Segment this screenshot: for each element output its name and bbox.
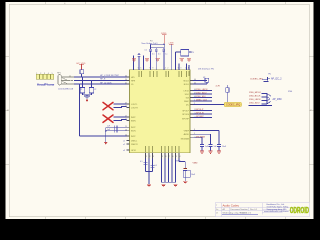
U1 left pin name texts (131, 77, 138, 152)
capacitor C6 (149, 49, 152, 69)
wire SPOLN (193, 113, 212, 115)
ground G4 (156, 59, 160, 61)
svg-text:C1: C1 (80, 89, 82, 91)
svg-text:6: 6 (173, 156, 174, 158)
svg-text:4: 4 (48, 73, 49, 75)
svg-text:VREF: VREF (184, 130, 190, 132)
capacitor C14 (151, 165, 155, 167)
svg-text:LRCK: LRCK (184, 90, 190, 92)
wire right pins (179, 64, 189, 70)
svg-text:0.1: 0.1 (152, 54, 155, 56)
svg-text:4.7K: 4.7K (216, 86, 221, 88)
svg-text:IN3P: IN3P (131, 117, 136, 119)
title link underline (222, 213, 258, 215)
svg-text:GPIO: GPIO (131, 150, 136, 152)
svg-text:Near Bridge (1uF): Near Bridge (1uF) (142, 43, 158, 45)
capacitor C7 (155, 48, 158, 70)
svg-text:x2: x2 (123, 144, 125, 146)
svg-text:4: 4 (165, 68, 166, 70)
capacitor C2 (89, 88, 93, 94)
svg-text:www.hardkernel.com Korea: www.hardkernel.com Korea (264, 211, 289, 213)
no-connect X SPK (103, 115, 113, 122)
ferrite bead FB2 (181, 50, 189, 57)
svg-text:MCLK: MCLK (183, 80, 189, 82)
U1 top pins (134, 66, 190, 70)
wire MIC P row (106, 126, 127, 128)
junction row1 (82, 76, 83, 77)
company info (264, 203, 289, 213)
wire BCLK (193, 82, 207, 84)
wire MIC N row (106, 130, 127, 132)
NC circles left lower (123, 141, 125, 152)
svg-text:VMID: VMID (193, 162, 199, 164)
wire pin 143.5 (143, 56, 145, 70)
capacitor C11 (209, 145, 213, 152)
svg-text:0.1: 0.1 (158, 54, 161, 56)
wire IRQ (193, 104, 224, 106)
svg-text:Rev 0.1: Rev 0.1 (250, 209, 258, 211)
svg-text:9: 9 (152, 68, 153, 70)
svg-text:3: 3 (180, 68, 181, 70)
junction micbias (201, 137, 202, 138)
svg-text:HeadPhone: HeadPhone (37, 83, 55, 87)
svg-text:5: 5 (52, 73, 53, 75)
svg-text:IN1N: IN1N (131, 131, 136, 133)
svg-text:1: 1 (146, 156, 147, 158)
svg-text:4: 4 (180, 156, 181, 158)
wire SDI (193, 97, 212, 99)
wire HPR row (74, 80, 127, 82)
svg-text:7: 7 (169, 156, 170, 158)
svg-text:5: 5 (138, 68, 139, 70)
svg-text:HP_R: HP_R (100, 79, 106, 81)
IC U1 (130, 70, 191, 153)
svg-text:7: 7 (149, 68, 150, 70)
ground G11 (161, 184, 165, 186)
wire caps rail (151, 47, 165, 49)
bottom pin numbers (146, 156, 181, 158)
power port MIC (red) (104, 142, 107, 145)
no-connect X LOUT (103, 102, 113, 109)
svg-text:5: 5 (176, 156, 177, 158)
wire bead row (176, 52, 192, 70)
power port HP_VDD (77, 63, 86, 70)
wire row1 down to C1 (82, 77, 84, 88)
wire JD row (74, 83, 127, 85)
svg-text:I2S0_MCLK: I2S0_MCLK (249, 92, 261, 94)
svg-text:AP_I2C_2: AP_I2C_2 (271, 77, 282, 80)
wire SPOLP (193, 110, 212, 112)
svg-text:BCLK: BCLK (184, 84, 190, 86)
svg-text:SDO: SDO (185, 94, 190, 96)
wire MCLK (193, 80, 207, 82)
wire IN3P (114, 116, 127, 118)
ground G7 (200, 151, 204, 153)
wire LOUTL (114, 103, 127, 105)
svg-text:HPR: HPR (131, 81, 136, 83)
capacitor C15 polarized (183, 168, 187, 170)
title block (215, 203, 309, 217)
ground G6 (187, 59, 191, 61)
svg-text:I2S Interface PU: I2S Interface PU (198, 68, 214, 71)
svg-text:HP_L 220R NL27WZ: HP_L 220R NL27WZ (100, 75, 119, 77)
wire pin 133.5 (133, 56, 135, 70)
wire DMIC (193, 100, 212, 102)
svg-text:SDI: SDI (186, 97, 190, 99)
wire VMID (179, 159, 185, 169)
junction center rail (163, 44, 164, 45)
wire FB1 to row1 (81, 74, 83, 77)
svg-text:3: 3 (153, 156, 154, 158)
ground G5 (180, 59, 184, 61)
J1 jack contacts (58, 75, 74, 86)
svg-text:Audio Codec: Audio Codec (223, 203, 240, 207)
svg-text:IN2P: IN2P (131, 136, 136, 138)
svg-text:ODROID: ODROID (290, 206, 309, 215)
U1 right pins (190, 81, 193, 138)
resistor R2 (226, 88, 229, 93)
svg-text:6: 6 (140, 68, 141, 70)
ground G10 (147, 184, 151, 186)
svg-text:SPOLN: SPOLN (182, 114, 189, 116)
resistor R1 (205, 78, 209, 82)
svg-text:0.1: 0.1 (140, 161, 143, 163)
svg-text:CODEC_IRQ: CODEC_IRQ (250, 78, 263, 80)
U1 bottom pin name texts (vertical smudges) (145, 146, 180, 152)
ground GND1 (84, 96, 90, 99)
wire SDO (193, 93, 212, 95)
svg-text:6: 6 (178, 68, 179, 70)
svg-text:DMICL: DMICL (131, 140, 138, 142)
capacitor C1 (80, 88, 84, 94)
capacitor C3 (115, 126, 117, 130)
junction row2 (91, 80, 92, 81)
junction mic bias (105, 130, 106, 131)
ground dot red (86, 99, 88, 101)
wire IN3N (114, 120, 127, 121)
wire mic bias vertical (105, 127, 107, 142)
svg-text:3: 3 (156, 68, 157, 70)
U1 pin numbers (125, 76, 196, 140)
svg-text:8: 8 (166, 156, 167, 158)
capacitor C4 (115, 129, 117, 133)
svg-text:9: 9 (162, 156, 163, 158)
ferrite bead FB1 (80, 70, 84, 74)
wire LRCK (193, 90, 212, 92)
wire SPORP (193, 117, 212, 119)
cap values top (145, 49, 168, 55)
wire harness bottom heavy (249, 105, 273, 107)
junction row3 (79, 83, 80, 84)
svg-text:LOUTR: LOUTR (131, 107, 138, 109)
svg-text:2: 2 (40, 73, 41, 75)
wire LOUTR (114, 107, 127, 108)
capacitor C5 (138, 53, 141, 70)
svg-text:MICBIAS: MICBIAS (181, 137, 190, 140)
svg-text:1: 1 (185, 68, 186, 70)
svg-text:Sz: Sz (216, 209, 218, 211)
headphone jack J1 (36, 73, 54, 80)
svg-text:1: 1 (36, 73, 37, 75)
bottom middle group wires (162, 159, 176, 183)
ground G2 (132, 59, 136, 61)
wire MICBIAS (193, 138, 202, 145)
svg-text:SPORP: SPORP (182, 118, 190, 120)
svg-text:HP_JD 100K: HP_JD 100K (100, 83, 112, 85)
wire center rail (151, 44, 165, 70)
wire JD long down (80, 84, 127, 136)
svg-text:0.1: 0.1 (145, 49, 148, 51)
wire join left group (146, 172, 153, 185)
wire row2 down to C2 (91, 81, 93, 88)
svg-text:DMIC: DMIC (184, 101, 190, 103)
svg-text:x3: x3 (123, 150, 125, 152)
svg-text:12401548E4#2A: 12401548E4#2A (58, 87, 74, 90)
U1 right pin name texts (181, 80, 190, 140)
ground G8 (208, 151, 212, 153)
capacitor C8 (162, 48, 165, 70)
svg-text:I2C: I2C (186, 104, 190, 106)
wire VREF (193, 131, 219, 145)
svg-text:IN1P: IN1P (131, 127, 136, 129)
ground G12 (173, 184, 177, 186)
svg-text:LOUTL: LOUTL (131, 104, 138, 106)
wire DMIC pins (146, 159, 153, 172)
svg-text:SPOLP: SPOLP (182, 110, 189, 112)
wire caps join to ground (83, 93, 92, 96)
svg-text:VMID: VMID (176, 161, 181, 163)
wire HPL row (74, 76, 127, 78)
capacitor C12 (217, 145, 221, 152)
svg-text:I2S0_BCLK: I2S0_BCLK (249, 96, 261, 98)
wire AVDD (193, 134, 211, 144)
U1 left pins (127, 77, 130, 150)
harness label yellow (224, 102, 242, 106)
svg-text:Document Number: Document Number (231, 208, 248, 211)
U1 bottom pins (146, 153, 180, 159)
svg-text:4: 4 (188, 68, 189, 70)
U1 top pin name texts (vertical smudges) (139, 71, 190, 77)
svg-text:CODEC_IRQ: CODEC_IRQ (226, 104, 240, 107)
svg-text:AVDD: AVDD (184, 133, 190, 136)
svg-text:DMICR: DMICR (131, 144, 138, 146)
svg-text:0.1: 0.1 (155, 165, 158, 167)
svg-text:I2S0_LRCK: I2S0_LRCK (249, 99, 261, 101)
svg-text:IN3N: IN3N (131, 120, 136, 122)
svg-text:C2: C2 (94, 89, 96, 91)
svg-text:x1: x1 (123, 141, 125, 143)
wire R2 (226, 85, 228, 105)
svg-text:2: 2 (150, 156, 151, 158)
svg-text:AP_I2S0: AP_I2S0 (273, 98, 283, 101)
svg-text:1u: 1u (165, 54, 167, 56)
capacitor C13 (144, 162, 148, 164)
ground G13 (183, 181, 187, 183)
ground G9 (217, 151, 221, 153)
capacitor C10 (200, 145, 204, 152)
svg-text:3: 3 (44, 73, 45, 75)
top pin numbers (138, 68, 189, 70)
ground G3 (145, 59, 149, 61)
svg-text:2: 2 (167, 68, 168, 70)
svg-text:I2S0_SDO: I2S0_SDO (249, 103, 260, 105)
